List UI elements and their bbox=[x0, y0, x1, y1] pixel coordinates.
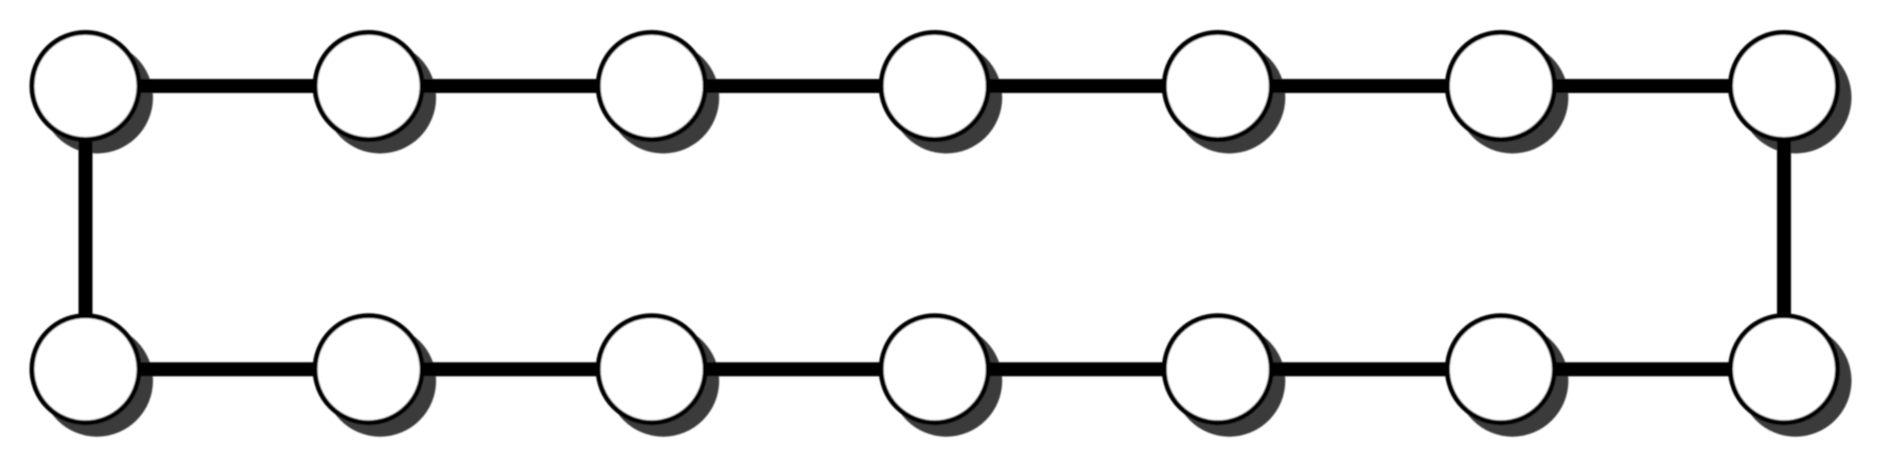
node v2 bbox=[315, 33, 422, 140]
node v9 bbox=[315, 316, 422, 423]
shadow of node v2 bbox=[324, 42, 436, 154]
shadow of node v1 bbox=[41, 42, 153, 154]
node v4 bbox=[881, 33, 988, 140]
wire: right vertical edge v7-v14 bbox=[1777, 86, 1791, 369]
shadow of node v13 bbox=[1456, 325, 1568, 437]
shadow of node v3 bbox=[607, 42, 719, 154]
node v12 bbox=[1164, 316, 1271, 423]
node v8 bbox=[32, 316, 139, 423]
shadow of node v11 bbox=[890, 325, 1002, 437]
node v6 bbox=[1447, 33, 1554, 140]
node v3 bbox=[598, 33, 705, 140]
shadow of node v12 bbox=[1173, 325, 1285, 437]
node v1 bbox=[32, 33, 139, 140]
node v13 bbox=[1447, 316, 1554, 423]
node v7 bbox=[1731, 33, 1838, 140]
shadow of node v7 bbox=[1740, 42, 1852, 154]
shadow of node v10 bbox=[607, 325, 719, 437]
wire: bottom row edge chain v8-v9-v10-v11-v12-v13-v14 bbox=[86, 362, 1785, 376]
node v14 bbox=[1731, 316, 1838, 423]
node v11 bbox=[881, 316, 988, 423]
shadow of node v8 bbox=[41, 325, 153, 437]
node v5 bbox=[1164, 33, 1271, 140]
shadow of node v4 bbox=[890, 42, 1002, 154]
shadow of node v14 bbox=[1740, 325, 1852, 437]
wire: left vertical edge v1-v8 bbox=[79, 86, 93, 369]
wire: top row edge chain v1-v2-v3-v4-v5-v6-v7 bbox=[86, 79, 1785, 93]
shadow of node v6 bbox=[1456, 42, 1568, 154]
shadow of node v5 bbox=[1173, 42, 1285, 154]
shadow of node v9 bbox=[324, 325, 436, 437]
node v10 bbox=[598, 316, 705, 423]
